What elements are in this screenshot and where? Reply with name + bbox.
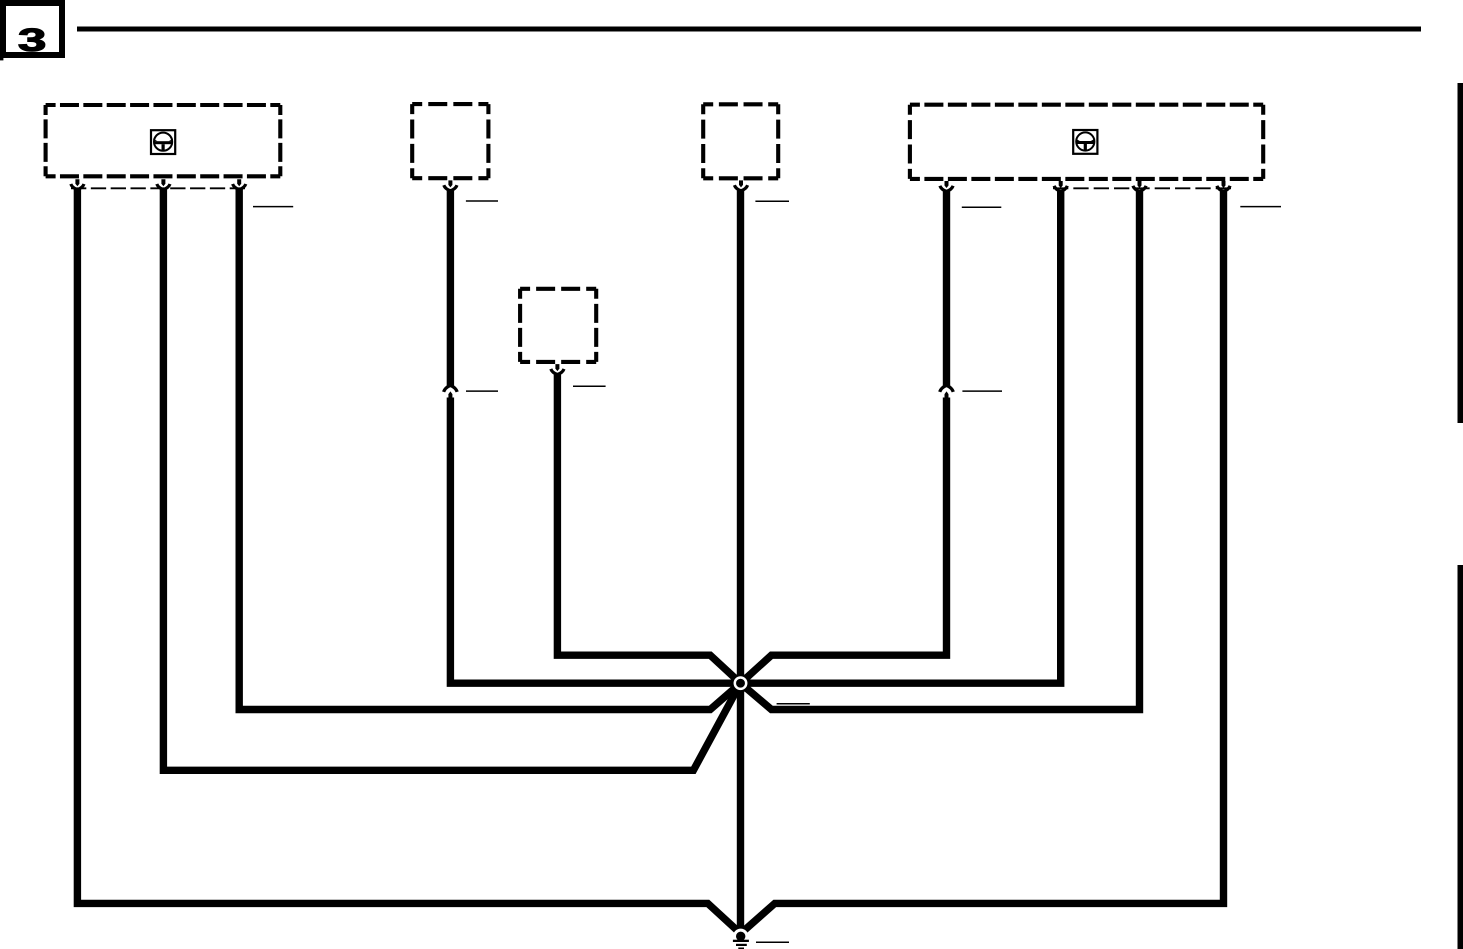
wire from box D pin 3 to node	[741, 190, 1140, 709]
pin connector box C pin 1	[734, 180, 747, 190]
inline connector on box B wire	[444, 385, 458, 397]
wire from box A pin 1 to ground point	[77, 189, 739, 933]
wire from box B lower segment to node	[450, 398, 740, 684]
label line at box A pin 3	[253, 206, 293, 208]
wire from box E to node	[557, 373, 740, 683]
label line at box C pin 1	[755, 200, 789, 202]
ground symbol	[733, 929, 749, 949]
component box D (top right, dashed)	[910, 105, 1263, 179]
label line at node	[777, 703, 810, 705]
label line at box E pin 1	[573, 385, 606, 387]
pin connector box A pin 3	[233, 179, 246, 189]
component box A (top left, dashed)	[46, 105, 281, 176]
pin connector box D pin 1	[940, 181, 953, 191]
component box B (small, dashed)	[412, 104, 488, 178]
right margin bar lower	[1458, 565, 1463, 949]
pin connector box A pin 1	[71, 179, 84, 189]
pin connector box D pin 2	[1054, 181, 1067, 191]
inline connector on box D pin 1 wire	[940, 385, 954, 397]
wire from box B upper segment	[447, 190, 454, 387]
pin connector box D pin 4	[1217, 181, 1230, 191]
label line at ground	[756, 941, 789, 943]
label line at inline connector right	[962, 390, 1002, 392]
wire from box A pin 2 to node	[163, 189, 740, 771]
label line at box B pin 1	[466, 200, 498, 202]
wire from box C through node to ground	[737, 190, 744, 933]
title rule	[77, 27, 1421, 32]
connector strip dashed line under box A	[71, 187, 245, 189]
label line at box D pin 1	[962, 206, 1002, 208]
pin connector box B pin 1	[444, 180, 457, 190]
wire from box D pin 2 to node	[741, 190, 1061, 683]
sheet box corner nub	[0, 58, 3, 60]
wire from box D pin 4 to ground point	[742, 190, 1224, 933]
steering wheel icon in box D	[1073, 130, 1097, 154]
connector strip dashed line under box D	[1053, 187, 1231, 189]
wire from box D pin 1 upper segment	[943, 190, 950, 386]
pin connector box E pin 1	[551, 364, 564, 374]
sheet number box	[3, 3, 62, 55]
pin connector box A pin 2	[157, 179, 170, 189]
component box C (small, dashed)	[703, 104, 778, 178]
wire from box A pin 3 to node	[239, 189, 740, 710]
node splice symbol	[731, 674, 750, 693]
label line at inline connector left	[466, 390, 498, 392]
right margin bar upper	[1458, 83, 1463, 423]
component box E (middle, dashed)	[520, 289, 596, 362]
pin connector box D pin 3	[1133, 181, 1146, 191]
label line at box D pin 4	[1240, 206, 1281, 208]
steering wheel icon in box A	[151, 130, 175, 154]
wire from box D pin 1 lower segment to node	[741, 398, 947, 684]
